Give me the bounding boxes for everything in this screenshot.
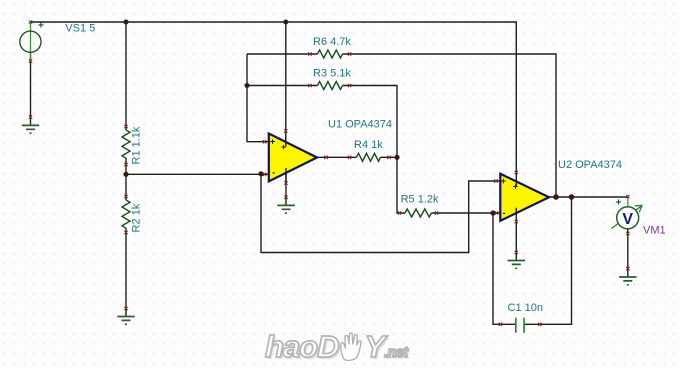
svg-text:R1 1.1k: R1 1.1k	[131, 126, 143, 164]
svg-text:+: +	[501, 176, 506, 186]
svg-text:VM1: VM1	[643, 225, 666, 237]
svg-text:R5 1.2k: R5 1.2k	[401, 194, 439, 206]
svg-text:R6 4.7k: R6 4.7k	[313, 36, 351, 48]
svg-text:+: +	[38, 21, 44, 32]
svg-text:+: +	[513, 181, 518, 191]
svg-text:U1 OPA4374: U1 OPA4374	[328, 119, 392, 131]
svg-text:R4 1k: R4 1k	[354, 139, 383, 151]
svg-text:VS1 5: VS1 5	[65, 23, 95, 35]
svg-text:-: -	[272, 168, 275, 178]
svg-text:+: +	[616, 198, 622, 209]
svg-text:+: +	[270, 137, 275, 147]
svg-text:C1 10n: C1 10n	[508, 302, 543, 314]
svg-text:V: V	[622, 211, 633, 228]
svg-text:-: -	[503, 208, 506, 218]
svg-text:R3 5.1k: R3 5.1k	[313, 68, 351, 80]
svg-text:U2 OPA4374: U2 OPA4374	[558, 159, 622, 171]
svg-text:R2 1k: R2 1k	[131, 203, 143, 232]
